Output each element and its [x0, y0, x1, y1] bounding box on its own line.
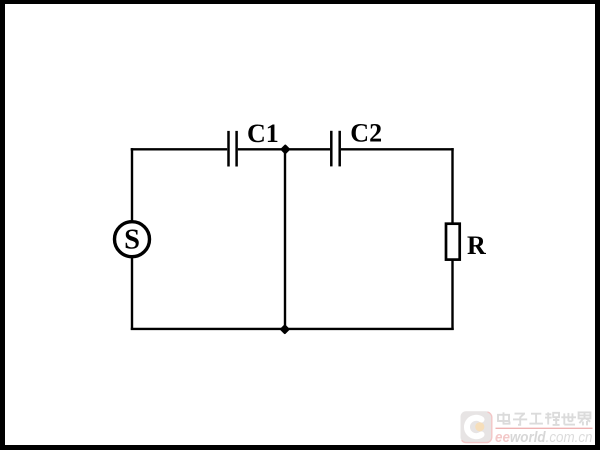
svg-text:S: S	[124, 225, 140, 256]
svg-text:eeworld.com.cn: eeworld.com.cn	[495, 429, 593, 446]
svg-text:R: R	[467, 231, 486, 260]
svg-text:C2: C2	[350, 119, 382, 148]
svg-text:C1: C1	[247, 119, 279, 148]
